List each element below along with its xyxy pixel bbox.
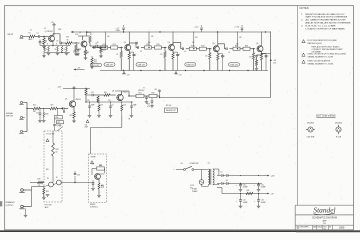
svg-text:CONTROL: CONTROL — [90, 206, 98, 208]
svg-text:1N34: 1N34 — [45, 114, 49, 116]
svg-text:R-29, R-30, T-1, J-1 & J-2 ARE: R-29, R-30, T-1, J-1 & J-2 ARE — [306, 24, 337, 27]
svg-text:Q4: Q4 — [168, 42, 170, 44]
svg-text:C15: C15 — [205, 55, 208, 57]
svg-text:25MF: 25MF — [91, 104, 95, 106]
svg-text:2 AMP: 2 AMP — [192, 190, 198, 193]
svg-text:Q8: Q8 — [112, 90, 114, 92]
svg-text:C32: C32 — [243, 200, 246, 202]
svg-text:LOCATED ON FRONT OF MAIN PANEL: LOCATED ON FRONT OF MAIN PANEL — [306, 27, 346, 30]
svg-text:47K: 47K — [239, 37, 242, 39]
svg-text:R15: R15 — [156, 44, 159, 46]
svg-text:SH: SH — [329, 227, 331, 229]
svg-text:R: R — [47, 43, 48, 45]
svg-text:OUTPUT: OUTPUT — [6, 205, 15, 207]
svg-text:2N1305: 2N1305 — [307, 122, 315, 124]
svg-text:SPEAKER: SPEAKER — [6, 201, 16, 204]
svg-text:TREM: TREM — [91, 157, 96, 159]
svg-text:5K: 5K — [55, 49, 57, 51]
svg-text:V1: V1 — [30, 30, 32, 32]
svg-text:FOOT SW: FOOT SW — [45, 205, 53, 207]
svg-text:+C5: +C5 — [73, 50, 76, 52]
svg-text:C11: C11 — [160, 54, 163, 56]
svg-text:VOL: VOL — [94, 61, 97, 63]
svg-text:4.7K: 4.7K — [101, 187, 104, 189]
svg-text:2N1304: 2N1304 — [335, 122, 343, 124]
svg-text:P1: P1 — [47, 178, 49, 180]
svg-text:2N1304: 2N1304 — [76, 99, 81, 101]
svg-text:Standel: Standel — [313, 206, 335, 215]
svg-text:C21: C21 — [36, 113, 39, 115]
svg-text:C31: C31 — [261, 184, 264, 186]
svg-text:9PU 9PU: 9PU 9PU — [138, 90, 144, 92]
svg-text:R: R — [65, 43, 66, 45]
svg-text:D1: D1 — [221, 172, 223, 174]
svg-text:DWG: DWG — [323, 227, 326, 229]
svg-text:R: R — [56, 43, 57, 45]
svg-text:VOL CKT: VOL CKT — [92, 65, 99, 67]
svg-text:10K: 10K — [236, 43, 239, 45]
svg-text:C28: C28 — [92, 164, 95, 166]
svg-text:ONE CKT: ONE CKT — [106, 64, 114, 66]
svg-text:C8: C8 — [116, 54, 118, 56]
svg-text:AND AT HIGH VALUES NOTED OTHER: AND AT HIGH VALUES NOTED OTHERWISE — [306, 22, 351, 25]
svg-text:.05: .05 — [228, 52, 230, 54]
svg-text:C20: C20 — [253, 59, 256, 61]
svg-text:POWER SW: POWER SW — [190, 163, 200, 165]
svg-text:FOOT SW: FOOT SW — [47, 134, 55, 136]
svg-text:R11: R11 — [113, 44, 116, 46]
svg-text:BOTTOM VIEWS: BOTTOM VIEWS — [316, 115, 336, 118]
svg-text:R27: R27 — [58, 122, 61, 124]
svg-text:C27: C27 — [91, 92, 94, 94]
svg-text:1.5K: 1.5K — [221, 56, 224, 58]
svg-text:R30: R30 — [38, 179, 41, 181]
svg-text:1K: 1K — [97, 42, 99, 44]
svg-text:60~: 60~ — [190, 187, 193, 189]
svg-text:1.5K: 1.5K — [133, 55, 136, 57]
svg-text:C1: C1 — [37, 32, 39, 34]
svg-text:47K: 47K — [100, 104, 103, 106]
svg-text:R32: R32 — [151, 93, 154, 95]
svg-text:C19: C19 — [249, 56, 252, 58]
svg-text:C24: C24 — [85, 125, 88, 127]
svg-text:R37: R37 — [100, 165, 103, 167]
svg-text:R7: R7 — [90, 34, 92, 36]
svg-text:+ C12: + C12 — [194, 27, 199, 29]
svg-text:.05: .05 — [140, 51, 142, 53]
svg-text:T1: T1 — [143, 88, 145, 90]
svg-text:R33: R33 — [147, 103, 150, 105]
svg-text:500MF: 500MF — [243, 202, 248, 204]
svg-text:SPEED: SPEED — [90, 204, 96, 206]
svg-text:R1: R1 — [29, 32, 31, 34]
svg-text:T-2: T-2 — [208, 163, 210, 165]
svg-text:E C/B: E C/B — [336, 137, 342, 139]
svg-text:R23: R23 — [245, 45, 248, 47]
svg-text:47K: 47K — [107, 36, 110, 38]
svg-text:INPUTS: INPUTS — [6, 116, 14, 118]
svg-text:R38: R38 — [101, 185, 104, 187]
svg-text:50: 50 — [56, 152, 58, 154]
svg-text:0.5: 0.5 — [38, 185, 40, 187]
svg-text:1.5K: 1.5K — [177, 55, 180, 57]
svg-text:+9V: +9V — [59, 125, 62, 127]
svg-text:390: 390 — [265, 56, 268, 58]
svg-text:2N1305: 2N1305 — [123, 92, 128, 94]
svg-text:CBT E/B: CBT E/B — [307, 137, 315, 139]
svg-text:REVERB CKT: REVERB CKT — [166, 110, 176, 112]
svg-text:R35 10K: R35 10K — [166, 105, 171, 107]
svg-text:WATT P-N UNLESS NOTED OTHERWIS: WATT P-N UNLESS NOTED OTHERWISE — [306, 16, 348, 19]
svg-text:Q2: Q2 — [79, 32, 81, 34]
svg-text:NOTES:: NOTES: — [300, 6, 310, 10]
svg-text:R24: R24 — [33, 105, 36, 107]
svg-text:R27: R27 — [70, 115, 73, 117]
svg-text:R8: R8 — [87, 52, 89, 54]
svg-text:.02: .02 — [44, 28, 46, 30]
svg-text:.05: .05 — [104, 50, 106, 52]
svg-text:Q3: Q3 — [124, 42, 126, 44]
svg-text:RATING EQUIV.: RATING EQUIV. — [308, 42, 323, 45]
svg-text:R5: R5 — [67, 39, 69, 41]
svg-text:C3: C3 — [56, 40, 58, 42]
svg-text:2N1305: 2N1305 — [86, 32, 91, 34]
svg-text:220K: 220K — [58, 29, 61, 31]
svg-text:R36: R36 — [46, 169, 49, 171]
svg-text:C5: C5 — [112, 104, 114, 106]
svg-text:25MF: 25MF — [85, 126, 89, 128]
svg-text:INPUT: INPUT — [8, 34, 15, 36]
svg-text:SERIAL NUMBER TO 25196: SERIAL NUMBER TO 25196 — [308, 55, 335, 58]
svg-text:Q6: Q6 — [256, 43, 258, 45]
svg-text:R40: R40 — [247, 190, 250, 192]
svg-text:R31: R31 — [138, 93, 141, 95]
svg-text:R26: R26 — [56, 117, 59, 119]
svg-text:5K: 5K — [64, 49, 66, 51]
svg-text:R2: R2 — [45, 41, 47, 43]
svg-text:TONE CKT: TONE CKT — [186, 64, 195, 66]
svg-text:R31: R31 — [46, 191, 49, 193]
svg-text:SERIAL NUMBER TO 25196: SERIAL NUMBER TO 25196 — [308, 62, 335, 65]
svg-text:10K: 10K — [192, 42, 195, 44]
svg-text:68K: 68K — [33, 111, 36, 113]
svg-text:2.2K: 2.2K — [123, 104, 126, 106]
svg-text:C33: C33 — [261, 200, 264, 202]
svg-text:ALL CAPACITORS ARE PAPER 20% M: ALL CAPACITORS ARE PAPER 20% MF — [306, 19, 347, 22]
svg-text:500MF: 500MF — [261, 202, 266, 204]
svg-text:R10: R10 — [94, 60, 97, 62]
svg-text:R19: R19 — [201, 45, 204, 47]
svg-text:5K: 5K — [46, 49, 48, 51]
svg-text:25MF: 25MF — [116, 30, 120, 32]
svg-text:Q1 2N1305: Q1 2N1305 — [45, 31, 53, 33]
svg-text:500MF: 500MF — [261, 186, 266, 188]
svg-text:USED ON UNITS AFTER: USED ON UNITS AFTER — [308, 60, 331, 63]
svg-text:3.3K: 3.3K — [66, 37, 69, 39]
svg-text:AMP: AMP — [322, 219, 327, 222]
svg-text:RESISTOR VALUES IN OHMS 20% 1/: RESISTOR VALUES IN OHMS 20% 1/2 — [306, 13, 346, 16]
svg-text:.05: .05 — [184, 51, 186, 53]
svg-text:C30: C30 — [243, 184, 246, 186]
svg-text:10-2: 10-2 — [323, 228, 326, 230]
svg-text:C25: C25 — [77, 174, 80, 176]
svg-text:D2: D2 — [226, 180, 228, 182]
svg-text:SIGNAL: SIGNAL — [6, 112, 13, 115]
svg-text:S-1: S-1 — [181, 163, 184, 165]
svg-text:C25: C25 — [87, 100, 90, 102]
svg-text:C2: C2 — [42, 43, 44, 45]
svg-text:TONE CKT: TONE CKT — [230, 64, 239, 66]
svg-text:1959: 1959 — [339, 226, 345, 230]
svg-text:50MF: 50MF — [73, 52, 77, 54]
svg-text:SCHEMATIC DIAGRAM: SCHEMATIC DIAGRAM — [312, 217, 337, 220]
svg-text:Q9: Q9 — [65, 98, 67, 100]
svg-text:47K: 47K — [151, 36, 154, 38]
svg-text:Q5: Q5 — [212, 43, 214, 45]
svg-text:ONE CKT: ONE CKT — [138, 64, 146, 66]
svg-text:R25: R25 — [51, 105, 54, 107]
svg-text:C26: C26 — [108, 100, 111, 102]
svg-text:500MF: 500MF — [243, 186, 248, 188]
svg-text:15L: 15L — [323, 223, 326, 225]
svg-text:USED ON UNITS UP TO AND INCLUD: USED ON UNITS UP TO AND INCLUDING — [308, 53, 347, 56]
svg-text:10K: 10K — [148, 42, 151, 44]
svg-text:+ C16: + C16 — [234, 27, 239, 29]
svg-text:4.7K: 4.7K — [147, 106, 150, 108]
svg-text:R31: R31 — [104, 92, 107, 94]
svg-text:47K: 47K — [195, 37, 198, 39]
